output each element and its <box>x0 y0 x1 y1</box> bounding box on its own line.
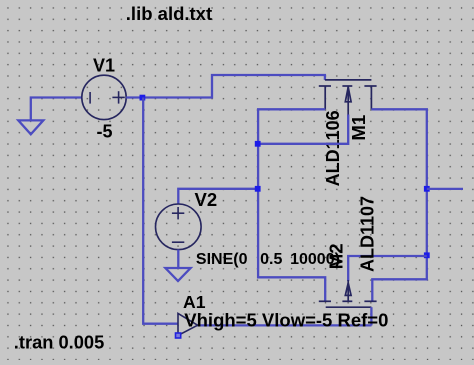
wire junction J1 to A1 input <box>143 98 178 324</box>
svg-text:-5: -5 <box>97 122 113 142</box>
wire V1 plus to M1 gate <box>126 75 325 98</box>
svg-text:V1: V1 <box>93 56 115 76</box>
svg-text:SINE(00.510000): SINE(00.510000) <box>196 251 340 268</box>
transistor M2 (PMOS ALD1107) <box>319 280 377 307</box>
ground (at V1 negative terminal) <box>18 120 43 134</box>
wire M1 drain to pass node column <box>258 109 325 301</box>
node junction J5 <box>424 252 430 258</box>
wire pass node to V2 top <box>178 189 258 204</box>
node junction J3 <box>255 186 261 192</box>
svg-text:.tran 0.005: .tran 0.005 <box>14 331 104 352</box>
voltage source V2 <box>156 204 202 250</box>
node junction J2 <box>255 141 261 147</box>
svg-text:ALD1106: ALD1106 <box>323 110 343 186</box>
ground (at V2 negative terminal) <box>165 268 190 281</box>
svg-text:ALD1107: ALD1107 <box>358 196 378 272</box>
transistor M1 (NMOS ALD1106) <box>319 80 377 116</box>
svg-text:M1: M1 <box>348 115 369 141</box>
voltage source V1 <box>82 75 126 119</box>
wire V1 minus to ground <box>31 98 82 121</box>
A1 unused pin marker <box>176 333 181 338</box>
svg-text:.lib ald.txt: .lib ald.txt <box>126 3 212 24</box>
svg-text:V2: V2 <box>195 189 218 210</box>
svg-text:M2: M2 <box>325 243 346 269</box>
wire M2 bulk to right rail <box>348 256 427 281</box>
svg-text:Vhigh=5 Vlow=-5 Ref=0: Vhigh=5 Vlow=-5 Ref=0 <box>184 310 388 331</box>
wire M2 gate to A1 output <box>370 307 372 325</box>
wire A1 output to M2 gate column <box>196 324 371 326</box>
node junction J4 <box>424 186 430 192</box>
buffer A1 <box>178 313 198 335</box>
wire V2 bottom to ground <box>177 250 179 268</box>
wire M1 bulk to pass node column <box>258 115 348 144</box>
wire output stub <box>427 188 463 190</box>
wire M1 source to right rail <box>371 109 426 301</box>
node junction J1 (V1 plus node) <box>140 95 146 101</box>
